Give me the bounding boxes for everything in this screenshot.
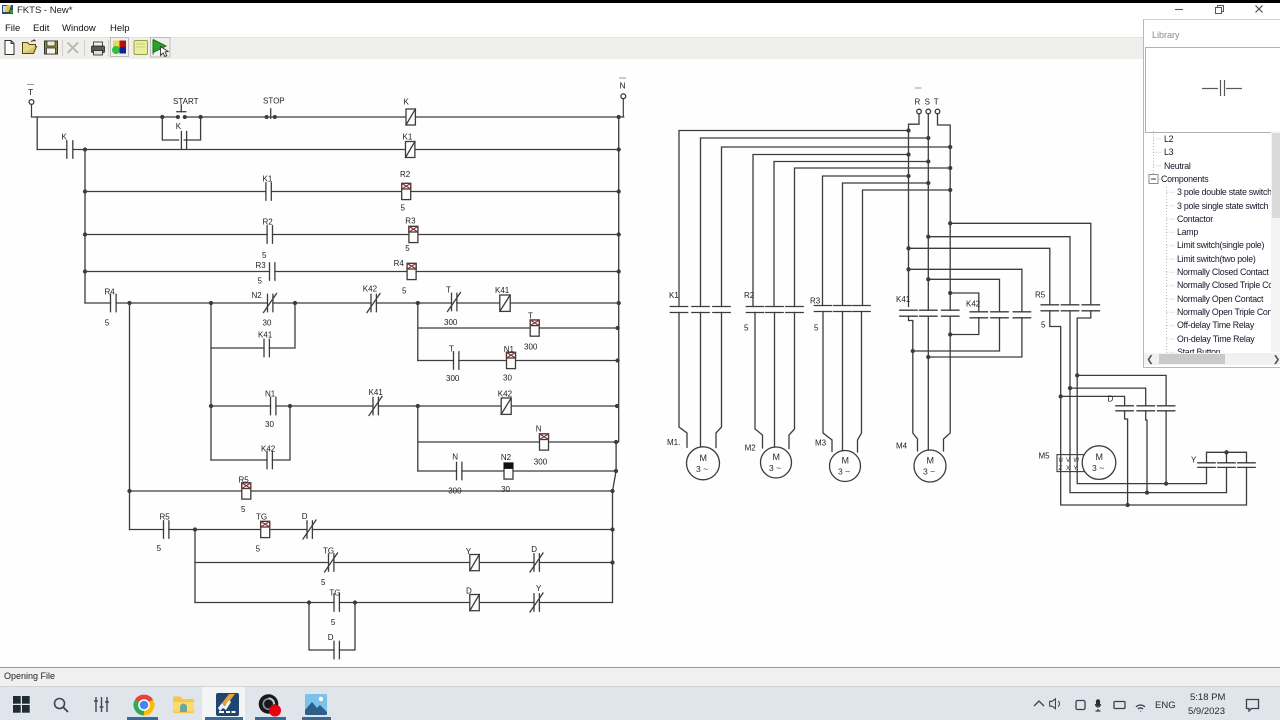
resistor bank R5 main contacts [1041,305,1099,311]
svg-text:5: 5 [401,204,406,213]
wire sub-rung T coil [418,303,618,361]
colors (boxed) [111,37,129,56]
contact K41 (NC, rung 7) [369,397,382,416]
wire R2 to M2 [755,313,795,449]
contactor K42 main contacts [970,312,1031,318]
app icon [2,5,13,15]
svg-text:R5: R5 [239,476,250,485]
svg-text:5: 5 [331,618,336,627]
svg-text:N: N [536,425,542,434]
svg-text:M5: M5 [1039,452,1051,461]
contact TG (NC timed, rung 11) [325,553,338,572]
svg-text:D: D [1108,395,1114,404]
label M5 [1039,452,1051,461]
wire feed K42 pole3 [907,268,1022,312]
svg-text:T: T [934,98,939,107]
svg-text:5: 5 [157,544,162,553]
label START [173,97,199,106]
junction rung5 right [617,270,620,273]
motor M2 text [769,452,781,473]
label Y [466,547,472,556]
label K [404,98,410,107]
tree [1144,131,1280,353]
svg-text:W: W [1074,458,1080,464]
svg-text:R5: R5 [160,513,171,522]
label R S T [915,98,939,107]
contact D (NC, rung 11) [530,553,543,572]
svg-text:K41: K41 [896,295,911,304]
wire K41 pole3 to M4 [944,316,952,451]
coil K41 (contactor, rung 6) [500,295,510,311]
label K [62,133,68,142]
svg-text:N1: N1 [504,345,515,354]
motor M4 [914,450,946,482]
svg-text:R4: R4 [105,288,116,297]
sep [84,40,86,56]
label K41 [896,295,911,304]
wire rung 8 [418,470,616,472]
svg-text:3 ~: 3 ~ [838,467,850,477]
resistor bank R3 main contacts [814,306,870,312]
title bar [0,3,1280,20]
svg-text:X: X [1066,466,1070,472]
chrome [133,694,155,716]
wire feed R2 pole2 [774,160,930,307]
svg-text:K41: K41 [495,286,510,295]
svg-text:Y: Y [1191,456,1197,465]
resistor bank R2 main contacts [746,307,803,313]
coil K42 (contactor, rung 7) [501,398,511,414]
wire branch K41 parallel to N2 [211,303,295,348]
label D [328,633,334,642]
label R2 [400,170,411,213]
svg-text:M2: M2 [745,444,757,453]
svg-text:N: N [452,453,458,462]
contact R2 (NO timed, rung 4) [267,226,272,243]
top black strip [0,0,1280,3]
svg-text:D: D [302,512,308,521]
print [92,46,105,53]
svg-text:K42: K42 [363,285,378,294]
svg-text:30: 30 [503,374,512,383]
coil T (time relay) [530,320,539,336]
junction N rung right [615,441,618,444]
svg-text:M4: M4 [896,442,908,451]
svg-text:R4: R4 [394,259,405,268]
label R5 and 5 [1035,291,1046,330]
X grey [68,42,79,53]
svg-text:M3: M3 [815,439,827,448]
start [13,696,30,713]
label R2 and 5 [744,291,755,333]
svg-text:N1: N1 [265,390,276,399]
wire R5 pole1 to U [1050,311,1247,507]
wire D pole2 output [1146,411,1147,493]
task view [94,697,109,712]
label K [176,122,182,131]
svg-text:R3: R3 [810,297,821,306]
svg-text:3 ~: 3 ~ [1092,463,1104,473]
svg-text:D: D [466,587,472,596]
wire rung 3 [85,191,619,193]
wire feed K1 pole1 [679,129,910,307]
motor M5 text [1092,452,1104,473]
junction rung3 left [84,190,87,193]
wire left rail second (x85) [84,150,86,304]
svg-text:3 ~: 3 ~ [769,463,781,473]
wire rung 4 [85,234,619,236]
svg-text:K42: K42 [498,390,513,399]
wire R3 to M3 [823,312,862,453]
junction rung3 right [617,190,620,193]
svg-text:3 ~: 3 ~ [923,467,935,477]
label R5 and time 5 [239,476,250,515]
wire left rail x129.5 [129,303,131,530]
svg-text:30: 30 [501,485,510,494]
contactor K1 main contacts (3 pole) [670,307,730,313]
svg-text:Y: Y [536,584,542,593]
label N1 and time 30 [265,390,276,430]
wire mid rail x211 lower [210,348,212,460]
svg-text:30: 30 [265,420,274,429]
svg-text:Z: Z [1059,466,1063,472]
junction rung7 right [616,405,619,408]
junction rung6 x211 [210,302,213,305]
wire Y star bridge [1207,451,1247,463]
coil N (time relay) [540,434,549,450]
motor M5 [1082,446,1116,480]
wire feed D pole2 [1070,388,1146,406]
svg-text:K42: K42 [966,300,981,309]
svg-text:5: 5 [262,251,267,260]
contactor Y main contacts [1198,463,1255,468]
label M3 [815,439,827,448]
toolbar [0,37,1143,61]
wire feed K1 pole2 [701,137,930,307]
junction rung1/right rail [617,116,620,119]
svg-text:T: T [528,312,533,321]
wire K42 pole1 output [950,318,979,335]
explorer [173,696,194,713]
node label T [28,87,33,97]
svg-text:R2: R2 [744,291,755,300]
svg-text:5: 5 [321,578,326,587]
svg-text:S: S [925,98,930,107]
note [134,40,148,54]
junction N1 rung right [616,359,619,362]
motor M3 [830,451,861,482]
junction rung7 x417.8 [416,405,419,408]
pushbutton START (NO) [177,105,187,119]
svg-text:K1: K1 [403,133,413,142]
contactor K41 main contacts [900,310,959,316]
junction rung6 right [617,302,620,305]
wire feed D pole1 [1061,396,1125,405]
label R3 [405,217,416,254]
svg-text:30: 30 [263,319,272,328]
wire rail x195 [194,530,196,603]
label Y [1191,456,1197,465]
contact TG (NO timed, rung 12) [334,594,339,611]
wire feed R3 pole3 [863,189,952,306]
terminal T [935,109,940,114]
wire feed K42 pole2 [927,278,1000,312]
wire K42 pole3 output [928,318,1022,357]
svg-text:K42: K42 [261,445,276,454]
wire rung 1 (T rail to N rail) [32,116,624,118]
label R5 and time 5 [157,513,171,554]
wire right rail [613,117,619,603]
junction rung6 x417.8 [416,302,419,305]
svg-text:U: U [1059,458,1063,464]
svg-text:K: K [176,122,182,131]
coil TG (time relay, rung 10) [261,521,270,537]
coil K1 (contactor, rung 2) [406,142,415,158]
label M4 [896,442,908,451]
coil R2 (time relay, rung 3) [402,183,411,199]
contact R5 (NO timed, rung 10) [164,521,169,538]
wire sub-rung N1 coil [418,360,618,362]
label N and time 300 [448,453,462,496]
svg-text:5: 5 [405,244,410,253]
svg-text:T: T [449,345,454,354]
svg-text:M: M [927,456,935,466]
contact D (NO, parallel branch) [334,641,339,658]
label STOP [263,97,285,106]
active app highlight [202,687,245,720]
terminal S [926,109,931,114]
label T and time 300 [524,312,538,352]
wire rung 6 [85,302,619,304]
wire branch around START [161,116,202,141]
junction rung10 x195 [194,528,197,531]
svg-text:300: 300 [534,458,548,467]
svg-text:5: 5 [402,287,407,296]
svg-text:R2: R2 [400,170,411,179]
photos app [305,694,327,715]
wire phase T bus [938,114,951,310]
svg-text:R: R [915,98,921,107]
label N2 and time 30 [252,291,272,328]
label K1 [403,133,413,142]
wire rung 7 [211,405,617,407]
contact D (NC, rung 10) [303,520,316,539]
junction rung6 x295 [294,302,297,305]
label TG and time 5 [329,589,340,628]
wire left rail upper [36,117,38,150]
taskbar [0,686,1280,720]
wire feed R3 pole1 [823,175,911,306]
wire rung 11 [195,562,613,564]
label K1 [263,175,273,184]
label K41 [369,388,384,397]
svg-text:Y: Y [1074,466,1078,472]
label D [302,512,308,521]
label TG and time 5 [256,513,268,554]
coil K (contactor, rung 1) [406,109,415,125]
coil R3 (time relay, rung 4) [409,226,418,242]
svg-text:START: START [173,97,199,106]
motor M2 [761,447,792,478]
window buttons [1160,2,1280,19]
svg-text:TG: TG [329,589,340,598]
label R4 [394,259,407,296]
contact K42 (NC, rung 6) [367,294,380,313]
svg-text:R5: R5 [1035,291,1046,300]
label T and time 300 [444,286,458,328]
media app [258,694,282,717]
wire feed R3 pole2 [843,182,930,306]
svg-text:5: 5 [1041,321,1046,330]
svg-text:K1: K1 [263,175,273,184]
wire feed D pole3 [1077,375,1166,405]
wire K42 pole2 output [913,318,1000,351]
contactor D main contacts [1116,406,1175,411]
save [45,41,58,54]
preview contact symbol [1199,75,1245,99]
svg-text:R2: R2 [263,218,274,227]
label D [1108,395,1114,404]
wire R5 pole2 to V [1069,311,1227,494]
label N2 and time 30 [501,453,512,494]
svg-text:M: M [842,456,850,466]
junction rung12 x355 [354,601,357,604]
svg-text:3 ~: 3 ~ [696,464,708,474]
svg-text:D: D [328,633,334,642]
v scrollbar [1271,131,1280,352]
tray [1032,698,1152,712]
wire K41 pole2 to M4 [927,316,930,450]
svg-text:N2: N2 [252,291,263,300]
wire feed R2 pole1 [753,153,910,307]
wire rung 5 [85,271,619,273]
motor M3 text [838,456,850,477]
svg-text:N2: N2 [501,453,512,462]
wire phase R bus [909,114,920,307]
coil N1 (time relay) [507,352,516,368]
open [23,46,37,53]
wire branch K42 parallel to N1 [211,406,290,460]
coil D (contactor, rung 12) [470,595,480,611]
svg-text:300: 300 [444,318,458,327]
svg-text:K: K [62,133,68,142]
pushbutton STOP (NC) [265,109,276,119]
svg-text:5: 5 [105,319,110,328]
wire R5 pole3 to W [1076,311,1207,485]
svg-text:M: M [1096,452,1104,462]
svg-text:M: M [773,452,781,462]
wire rung 2 [37,149,619,151]
wire rung 9 (R5 coil) [130,490,613,492]
junction rung9 right [611,490,614,493]
label K42 [261,445,276,454]
junction rung7 x211 [210,405,213,408]
contact K1 (NO, rung 3) [266,183,271,200]
label T and time 300 [446,345,460,384]
h scrollbar [1144,353,1280,366]
coil R4 (time relay, rung 5) [407,263,416,279]
wire rung 12 [195,602,613,604]
contact K42 (NO, parallel branch) [267,451,272,468]
contact N2 (NC timed, rung 6) [264,294,277,313]
wire feed R5 pole1 [907,247,1050,305]
label R2 and time 5 [262,218,273,261]
sep [62,40,64,56]
label K1 [669,291,679,300]
contact N1 (NO timed, rung 7) [271,397,276,414]
svg-text:M: M [700,453,708,463]
label K42 [363,285,378,294]
contact K (NO, rung 2) [67,141,73,158]
motor M4 text [923,456,935,477]
svg-text:5: 5 [256,545,261,554]
sep [108,40,110,56]
wire rung 10 [130,529,613,531]
svg-text:V: V [1066,458,1070,464]
svg-text:300: 300 [524,343,538,352]
contact K (NO, seal-in under START) [181,132,186,149]
svg-text:5: 5 [258,277,263,286]
wire feed K1 pole3 [722,146,952,307]
contact T (NC timed, rung 6) [448,293,461,312]
wire phase S bus [927,114,929,310]
svg-text:K: K [404,98,410,107]
motor M5 terminal letters [1059,458,1080,472]
svg-text:5: 5 [744,324,749,333]
wire feed R5 pole3 [949,222,1091,305]
label Y [536,584,542,593]
terminal R [916,88,922,114]
wire K41 pole1 to M4 [909,316,918,451]
wire D pole1 output [1125,411,1128,505]
label K41 [258,331,273,340]
label K42 [966,300,981,309]
svg-text:T: T [446,286,451,295]
menu bar [0,20,1143,37]
running underlines [127,717,158,720]
svg-text:STOP: STOP [263,97,285,106]
motor M5 terminal box [1057,455,1084,472]
library panel [1143,19,1280,368]
wire feed R2 pole3 [795,167,952,307]
svg-text:K41: K41 [258,331,273,340]
svg-text:M1.: M1. [667,438,680,447]
preview box [1145,47,1280,133]
junction rung7 x290 [289,405,292,408]
junction rung4 left [84,233,87,236]
svg-text:R3: R3 [405,217,416,226]
contact T (NO timed) [454,352,459,369]
svg-text:K1: K1 [669,291,679,300]
junction rung12 x309 [308,601,311,604]
status bar [0,667,1280,688]
svg-text:Y: Y [466,547,472,556]
svg-text:N: N [620,81,626,91]
fkts app [216,693,239,716]
new [5,40,14,54]
wire branch D parallel to TG [309,603,355,651]
contact R3 (NO timed, rung 5) [270,263,275,280]
svg-text:D: D [531,545,537,554]
motor M1 text [696,453,708,474]
label R3 and 5 [810,297,821,333]
wire rung N coil [418,406,616,471]
label R4 and time 5 [105,288,116,328]
run (boxed) [151,37,171,57]
junction rung2 right [617,148,620,151]
label D [466,587,472,596]
junction rung10 right [611,528,614,531]
